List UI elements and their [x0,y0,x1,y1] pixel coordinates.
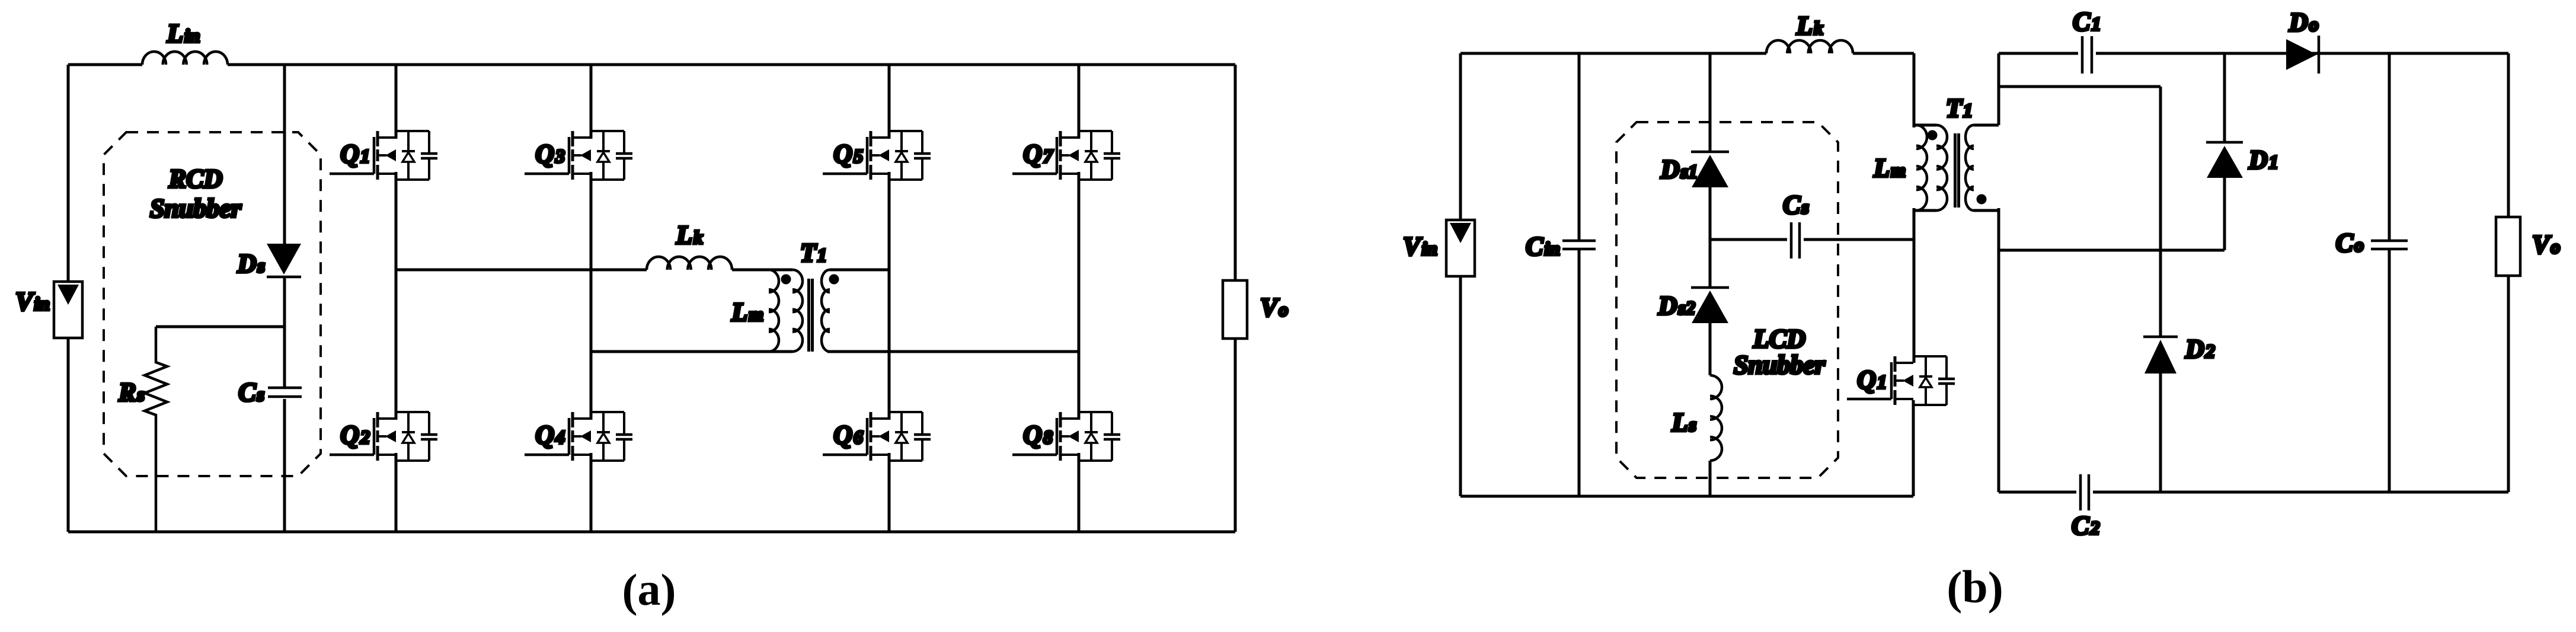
wire secondary top [830,269,889,272]
wire bridge leg 3 [888,65,891,532]
wire right rail (a) [1234,65,1237,532]
capacitor Co [2388,53,2391,492]
wire primary bottom [1914,208,1936,363]
transistor Q2 [330,412,437,461]
svg-text:Lm: Lm [731,298,763,327]
wire bottom rail right (b) [1999,491,2508,494]
svg-text:LCD: LCD [1753,324,1805,353]
wire bottom rail (a) [68,531,1235,534]
node dot secondary [829,274,839,285]
diode D2 [2159,87,2162,492]
source Vin [54,282,82,338]
wire primary bottom node B [591,350,792,353]
svg-text:T1: T1 [1946,94,1973,123]
svg-text:Rs: Rs [118,378,145,407]
inductor Lm winding [769,270,779,352]
wire primary top node A [396,269,792,272]
wire top rail secondary (b) [1999,52,2508,55]
wire secondary top [1974,53,1999,125]
svg-text:Ds: Ds [237,249,265,278]
svg-text:Co: Co [2336,228,2364,257]
capacitor C2 [2080,474,2089,510]
transistor Q1 [1847,356,1955,405]
wire clamp node [1999,249,2225,252]
wire secondary loop top [1999,85,2160,88]
wire snubber vertical (b) [1709,53,1712,496]
svg-text:D1: D1 [2248,145,2278,174]
svg-text:Lin: Lin [167,19,200,48]
svg-text:(a): (a) [622,563,676,616]
node dot primary [1928,130,1938,141]
svg-text:Lk: Lk [676,221,703,250]
wire bridge leg 1 [395,65,398,532]
svg-text:Q1: Q1 [340,139,370,168]
wire right rail (b) [2507,53,2510,492]
svg-text:(b): (b) [1947,561,2003,614]
svg-text:Ls: Ls [1671,408,1696,437]
inductor Lin [142,52,228,65]
source Vin [1446,220,1475,276]
svg-text:Vin: Vin [1403,232,1437,261]
wire left rail (a) [67,65,70,532]
transformer T1 core [809,279,813,352]
svg-text:Lk: Lk [1796,11,1823,40]
capacitor Cs [268,388,302,397]
node dot secondary [1977,194,1987,205]
transformer T1 core [1955,133,1959,208]
svg-text:Ds2: Ds2 [1658,291,1695,320]
capacitor Cs [1791,222,1800,258]
RCD snubber dashed box [104,132,321,476]
svg-text:Vo: Vo [2532,230,2560,259]
svg-text:Cs: Cs [238,378,264,407]
svg-text:RCD: RCD [168,164,222,193]
wire bottom rail left (b) [1460,495,1913,498]
capacitor Cin [1578,53,1581,496]
wire secondary bottom drop [1974,208,1999,492]
resistor Rs [145,327,167,532]
wire bridge leg 4 [1078,65,1081,532]
inductor Lk [647,257,732,270]
svg-text:Q5: Q5 [833,139,863,168]
load Vo [1223,280,1247,339]
transistor Q4 [525,412,632,461]
transistor Q1 [330,131,437,180]
svg-text:Q2: Q2 [340,420,370,449]
svg-text:C1: C1 [2073,7,2101,36]
transistor Q7 [1012,131,1120,180]
diode Ds1 [1691,151,1729,154]
load Vo [2496,217,2520,276]
wire left rail (b) [1459,53,1462,496]
svg-text:Q8: Q8 [1023,420,1053,449]
transformer T1 primary [792,270,803,352]
diode Ds [267,244,301,274]
wire top rail (a) [68,63,1235,66]
svg-text:Snubber: Snubber [1734,350,1826,379]
diode Ds2 [1691,286,1729,289]
wire snubber vertical [283,65,286,532]
transistor Q3 [525,131,632,180]
transformer T1 secondary [1965,125,1974,210]
svg-text:D2: D2 [2185,334,2215,363]
svg-text:Snubber: Snubber [150,194,242,223]
transformer T1 secondary [822,270,830,352]
diode D1 [2223,53,2226,250]
LCD snubber dashed box [1616,122,1838,478]
transistor Q5 [823,131,931,180]
transistor Q6 [823,412,931,461]
svg-text:Q3: Q3 [535,139,565,168]
svg-text:Q7: Q7 [1023,139,1054,168]
wire secondary bottom [827,350,1079,353]
svg-text:Ds1: Ds1 [1660,155,1698,184]
wire bridge leg 2 [590,65,593,532]
node dot primary [781,274,791,285]
svg-text:Do: Do [2289,8,2319,37]
inductor Lk [1766,40,1853,53]
wire primary drop [1914,53,1936,127]
wire Q1 source [1912,400,1915,496]
svg-text:C2: C2 [2072,511,2099,540]
svg-text:Vo: Vo [1260,293,1288,322]
svg-text:Cin: Cin [1526,232,1560,261]
diode Do [2286,39,2317,70]
wire Cs node [1710,238,1913,241]
capacitor C1 [2082,36,2092,74]
svg-text:Lm: Lm [1873,154,1906,183]
transformer T1 primary [1936,125,1947,210]
svg-text:Q1: Q1 [1857,365,1887,394]
inductor Ls [1710,375,1722,461]
wire top rail (b) [1460,52,1914,55]
transistor Q8 [1012,412,1120,461]
svg-text:Q4: Q4 [535,420,565,449]
wire snubber top [156,325,285,328]
svg-text:Cs: Cs [1783,190,1809,219]
inductor Lm winding [1916,125,1927,210]
svg-text:T1: T1 [800,238,827,267]
svg-text:Q6: Q6 [833,420,863,449]
svg-text:Vin: Vin [15,287,50,316]
